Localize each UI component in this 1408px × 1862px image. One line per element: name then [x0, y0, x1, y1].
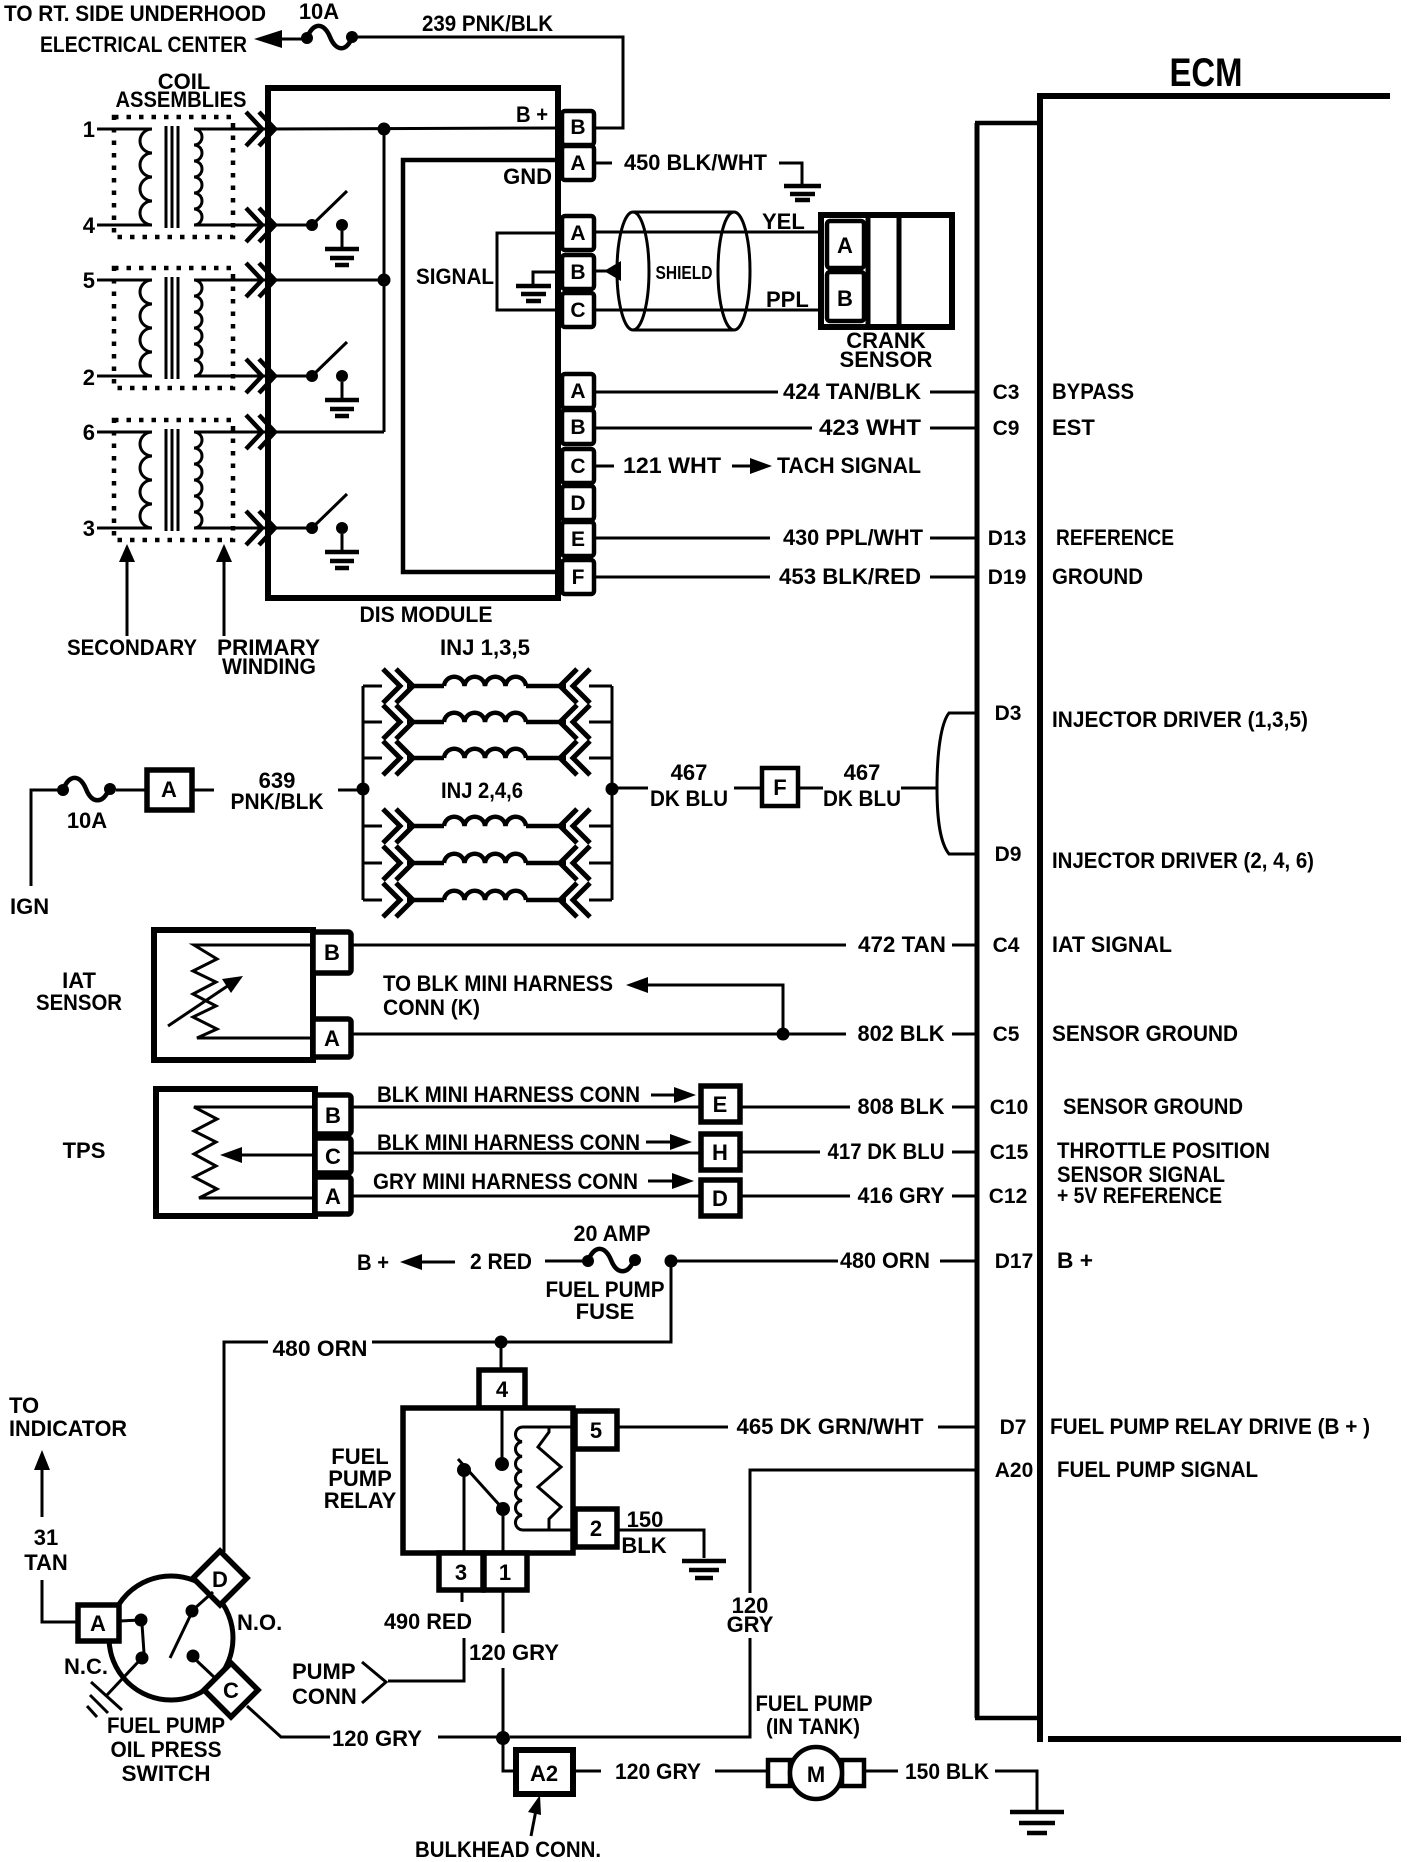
label BLK MINI HARNESS CONN (E) with arrow: [377, 1082, 696, 1107]
driver switch Q2 (coil 2) with ground: [268, 342, 359, 416]
svg-text:10A: 10A: [67, 808, 107, 833]
svg-text:SWITCH: SWITCH: [122, 1761, 211, 1786]
injector 6: [363, 883, 612, 917]
node label TO RT. SIDE UNDERHOOD ELECTRICAL CENTER: [4, 1, 266, 57]
svg-text:TO BLK MINI HARNESS: TO BLK MINI HARNESS: [383, 971, 613, 996]
svg-text:SENSOR: SENSOR: [36, 990, 122, 1015]
svg-text:4: 4: [496, 1377, 509, 1402]
svg-text:F: F: [572, 566, 585, 589]
svg-text:BYPASS: BYPASS: [1052, 379, 1134, 404]
connector PUMP CONN: [292, 1659, 386, 1709]
svg-text:CONN: CONN: [292, 1684, 357, 1709]
svg-text:450 BLK/WHT: 450 BLK/WHT: [624, 150, 768, 175]
svg-text:D: D: [712, 1186, 728, 1211]
svg-text:TACH SIGNAL: TACH SIGNAL: [777, 453, 921, 478]
svg-text:B: B: [570, 261, 585, 284]
svg-text:TO RT. SIDE UNDERHOOD: TO RT. SIDE UNDERHOOD: [4, 1, 266, 26]
svg-text:INDICATOR: INDICATOR: [9, 1416, 127, 1441]
wire 480 ORN branch: [224, 1336, 505, 1552]
wire C diamond to 120 GRY: [247, 1706, 503, 1751]
svg-text:120 GRY: 120 GRY: [332, 1726, 422, 1751]
connector A2 bulkhead: [516, 1750, 573, 1794]
svg-text:YEL: YEL: [762, 209, 805, 234]
injector 3: [363, 705, 612, 739]
junction injector bus right: [606, 783, 619, 796]
injector 5: [363, 741, 612, 775]
svg-text:C4: C4: [993, 934, 1020, 957]
svg-text:A: A: [325, 1184, 341, 1209]
svg-text:TO: TO: [9, 1393, 39, 1418]
connector E: [701, 1086, 740, 1122]
svg-text:480 ORN: 480 ORN: [840, 1248, 930, 1273]
svg-text:F: F: [773, 775, 786, 800]
svg-text:5: 5: [590, 1418, 602, 1443]
wire 417 DK BLU to C15 THROTTLE POSITION SENSOR SIGNAL: [740, 1138, 1270, 1187]
svg-text:2: 2: [590, 1516, 602, 1541]
junction relay feed: [495, 1336, 508, 1349]
junction dot bus coil2: [378, 274, 391, 287]
wire 467 DK BLU (right of F): [798, 760, 937, 811]
junction fuse output: [665, 1255, 678, 1268]
svg-text:10A: 10A: [299, 0, 339, 24]
svg-text:A: A: [324, 1026, 340, 1051]
relay coil and resistor: [515, 1427, 573, 1530]
svg-text:465 DK GRN/WHT: 465 DK GRN/WHT: [737, 1414, 925, 1439]
svg-text:B +: B +: [516, 102, 548, 127]
svg-text:802 BLK: 802 BLK: [858, 1021, 945, 1046]
svg-text:FUEL PUMP: FUEL PUMP: [107, 1713, 225, 1738]
svg-text:A: A: [837, 233, 853, 258]
arrow to electrical center: [254, 30, 305, 48]
svg-text:FUEL PUMP SIGNAL: FUEL PUMP SIGNAL: [1057, 1457, 1258, 1482]
relay terminal 2: [575, 1509, 617, 1547]
svg-text:A: A: [570, 152, 585, 175]
wire 639 PNK/BLK: [192, 768, 363, 814]
wire A20 FUEL PUMP SIGNAL: [510, 1457, 1258, 1737]
svg-text:467: 467: [844, 760, 881, 785]
svg-text:C: C: [570, 299, 585, 322]
svg-text:424 TAN/BLK: 424 TAN/BLK: [783, 379, 921, 404]
svg-text:TPS: TPS: [63, 1138, 106, 1163]
svg-text:3: 3: [83, 516, 95, 541]
wire 121 WHT tach signal: [594, 453, 921, 478]
svg-text:150 BLK: 150 BLK: [905, 1759, 989, 1784]
svg-text:C15: C15: [990, 1141, 1029, 1164]
wire 416 GRY to C12 +5V REFERENCE: [740, 1183, 1222, 1208]
relay terminal 5: [575, 1411, 617, 1449]
svg-text:IAT SIGNAL: IAT SIGNAL: [1052, 932, 1172, 957]
wire B+ feed with arrow: [357, 1249, 585, 1275]
svg-text:INJ 1,3,5: INJ 1,3,5: [440, 635, 530, 660]
chevron connector coil1 secondary bottom: [246, 208, 275, 242]
wire TPS B to E: [351, 1106, 701, 1109]
svg-text:453 BLK/RED: 453 BLK/RED: [779, 564, 921, 589]
svg-text:121 WHT: 121 WHT: [623, 453, 722, 478]
svg-text:DIS MODULE: DIS MODULE: [360, 602, 493, 627]
svg-text:GND: GND: [503, 164, 552, 189]
svg-text:3: 3: [455, 1560, 467, 1585]
svg-text:A2: A2: [530, 1761, 558, 1786]
ECM U2: [975, 51, 1401, 1742]
wire IGN feed: [10, 790, 58, 919]
terminal C (crank conn): [562, 293, 594, 327]
signal box inside DIS module: [403, 160, 558, 572]
wire 467 DK BLU (left of F): [612, 760, 762, 811]
injector 2: [363, 809, 612, 843]
label TO INDICATOR with arrow: [9, 1393, 127, 1517]
svg-text:SENSOR: SENSOR: [840, 347, 933, 372]
wire TPS A to D: [351, 1195, 701, 1198]
svg-text:20 AMP: 20 AMP: [574, 1221, 651, 1246]
svg-text:C: C: [325, 1144, 341, 1169]
svg-text:BLK: BLK: [621, 1533, 666, 1558]
connector H: [701, 1134, 740, 1170]
svg-text:D13: D13: [988, 527, 1027, 550]
relay terminal 4: [479, 1370, 525, 1408]
svg-text:B: B: [570, 416, 585, 439]
svg-text:REFERENCE: REFERENCE: [1056, 525, 1174, 550]
svg-text:D7: D7: [1000, 1416, 1027, 1439]
svg-text:A20: A20: [995, 1459, 1034, 1482]
chevron connector coil3 bottom: [246, 511, 275, 545]
svg-text:INJECTOR DRIVER (1,3,5): INJECTOR DRIVER (1,3,5): [1052, 707, 1308, 732]
junction dot bus top: [378, 123, 391, 136]
svg-text:PNK/BLK: PNK/BLK: [231, 789, 324, 814]
driver switch Q3 (coil 3) with ground: [268, 494, 359, 568]
relay switch contacts: [457, 1408, 510, 1553]
svg-text:SIGNAL: SIGNAL: [416, 264, 494, 289]
svg-text:M: M: [807, 1762, 825, 1787]
svg-text:OIL PRESS: OIL PRESS: [111, 1737, 222, 1762]
svg-text:C: C: [223, 1678, 239, 1703]
chevron connector coil3 top: [246, 415, 275, 449]
svg-text:D3: D3: [995, 702, 1022, 725]
relay terminal 1: [484, 1553, 527, 1590]
coil assembly 2 (cylinders 5/2): [83, 268, 268, 390]
svg-text:A: A: [90, 1611, 106, 1636]
wire shield drain: [594, 261, 621, 281]
terminal A (TPS): [315, 1177, 351, 1214]
wire coil bus vertical: [383, 129, 386, 432]
svg-text:B +: B +: [357, 1250, 389, 1275]
wire 480 ORN to D17 B+: [671, 1248, 1093, 1273]
svg-text:FUSE: FUSE: [576, 1299, 635, 1324]
wire 453 BLK/RED to D19 GROUND: [594, 564, 1143, 589]
wire 808 BLK to C10 SENSOR GROUND: [740, 1094, 1243, 1119]
fuse 10A (239 circuit): [299, 0, 358, 48]
svg-text:C5: C5: [993, 1023, 1020, 1046]
svg-text:ELECTRICAL CENTER: ELECTRICAL CENTER: [40, 32, 247, 57]
wire injector bus right: [611, 686, 614, 900]
wire PPL crank signal: [594, 287, 821, 312]
terminal F (DIS EST group): [562, 560, 594, 594]
terminal B (TPS): [315, 1095, 351, 1134]
oil press switch contacts: [107, 1592, 215, 1695]
driver switch Q1 (coil 1) with ground: [268, 191, 359, 265]
label COIL ASSEMBLIES: [116, 69, 247, 112]
label BLK MINI HARNESS CONN (H) with arrow: [377, 1130, 692, 1155]
IAT sensor: [36, 930, 313, 1060]
svg-text:31: 31: [34, 1525, 58, 1550]
svg-text:CONN (K): CONN (K): [383, 995, 480, 1020]
svg-text:BULKHEAD CONN.: BULKHEAD CONN.: [415, 1837, 601, 1862]
svg-text:IGN: IGN: [10, 894, 49, 919]
svg-text:INJECTOR DRIVER (2, 4, 6): INJECTOR DRIVER (2, 4, 6): [1052, 848, 1314, 873]
wire 239 PNK/BLK: [357, 11, 623, 128]
wire 31 TAN: [24, 1525, 78, 1622]
wire 465 DK GRN/WHT to D7 FUEL PUMP RELAY DRIVE: [617, 1414, 1370, 1439]
svg-text:GRY MINI HARNESS CONN: GRY MINI HARNESS CONN: [373, 1169, 638, 1194]
wire 490 RED from terminal 3: [384, 1590, 472, 1681]
svg-text:480 ORN: 480 ORN: [273, 1336, 368, 1361]
terminal A (DIS GND): [562, 146, 594, 180]
svg-text:467: 467: [671, 760, 708, 785]
svg-text:A: A: [161, 777, 177, 802]
svg-text:D: D: [570, 492, 585, 515]
terminal D (DIS EST group): [562, 486, 594, 520]
svg-text:430 PPL/WHT: 430 PPL/WHT: [783, 525, 924, 550]
svg-text:C9: C9: [993, 417, 1020, 440]
connector F (467 circuit): [762, 768, 798, 806]
wire 423 WHT to C9 EST: [594, 415, 1095, 440]
svg-text:B +: B +: [1057, 1248, 1093, 1273]
terminal A (IAT): [313, 1019, 351, 1057]
wire 450 BLK/WHT with ground: [594, 150, 821, 200]
svg-text:D9: D9: [995, 843, 1022, 866]
svg-text:+ 5V REFERENCE: + 5V REFERENCE: [1057, 1183, 1222, 1208]
svg-text:SENSOR GROUND: SENSOR GROUND: [1052, 1021, 1238, 1046]
wire YEL crank signal: [594, 209, 821, 234]
svg-text:RELAY: RELAY: [324, 1488, 397, 1513]
svg-text:H: H: [712, 1140, 728, 1165]
wire 150 BLK with ground: [617, 1507, 726, 1578]
coil assembly 1 (cylinders 1/4): [83, 117, 268, 238]
svg-text:239 PNK/BLK: 239 PNK/BLK: [422, 11, 553, 36]
svg-text:416 GRY: 416 GRY: [858, 1183, 945, 1208]
svg-text:E: E: [713, 1092, 728, 1117]
svg-text:ECM: ECM: [1170, 51, 1243, 95]
svg-text:D17: D17: [995, 1250, 1034, 1273]
svg-text:ASSEMBLIES: ASSEMBLIES: [116, 87, 247, 112]
terminal C (TPS): [315, 1138, 351, 1173]
svg-text:SENSOR GROUND: SENSOR GROUND: [1063, 1094, 1243, 1119]
wire coil3 top to bus: [268, 431, 384, 434]
svg-text:SECONDARY: SECONDARY: [67, 635, 197, 660]
svg-text:A: A: [570, 222, 585, 245]
svg-text:(IN TANK): (IN TANK): [766, 1714, 860, 1739]
svg-text:6: 6: [83, 420, 95, 445]
fuel pump relay K1: [324, 1408, 573, 1553]
connector A (639 circuit): [147, 770, 192, 810]
terminal A (oil press switch): [78, 1605, 119, 1641]
label PRIMARY WINDING with arrow: [216, 544, 320, 679]
svg-text:5: 5: [83, 268, 95, 293]
wire 472 TAN to C4 IAT SIGNAL: [351, 932, 1172, 957]
terminal A (DIS EST group): [562, 374, 594, 408]
arrow to A2 (bulkhead): [528, 1795, 541, 1836]
svg-text:E: E: [571, 528, 585, 551]
chevron connector coil2 bottom: [246, 359, 275, 393]
connector D: [701, 1180, 740, 1216]
terminal A (crank conn): [562, 216, 594, 250]
label GRY MINI HARNESS CONN (D) with arrow: [373, 1169, 694, 1194]
label SECONDARY with arrow: [67, 544, 197, 660]
svg-text:A: A: [570, 380, 585, 403]
junction 120 GRY at A2: [496, 1731, 510, 1745]
junction injector bus left: [357, 783, 370, 796]
svg-text:C12: C12: [989, 1185, 1028, 1208]
wire 120 GRY from terminal 1: [469, 1590, 559, 1737]
svg-text:INJ 2,4,6: INJ 2,4,6: [441, 778, 523, 803]
svg-text:GROUND: GROUND: [1052, 564, 1143, 589]
terminal E (DIS EST group): [562, 522, 594, 556]
svg-text:417 DK BLU: 417 DK BLU: [828, 1139, 945, 1164]
injector 1: [363, 669, 612, 703]
wire internal A-C bracket: [497, 233, 562, 310]
svg-text:N.C.: N.C.: [64, 1654, 108, 1679]
svg-text:GRY: GRY: [727, 1612, 774, 1637]
svg-text:B: B: [325, 1103, 341, 1128]
fuse 10A (639 circuit): [57, 778, 147, 833]
label TO BLK MINI HARNESS CONN (K) with arrow: [383, 971, 783, 1028]
fuel pump oil press switch S1: [107, 1576, 233, 1786]
fuel pump motor M1: [756, 1691, 873, 1799]
terminal C (DIS EST group): [562, 449, 594, 483]
svg-text:C3: C3: [993, 381, 1020, 404]
wire 802 BLK to C5 SENSOR GROUND: [351, 1021, 1238, 1046]
chevron connector coil1 secondary top: [246, 112, 275, 146]
crank sensor connector: [821, 215, 952, 372]
wire to relay terminal 4: [500, 1342, 503, 1370]
wire 430 PPL/WHT to D13 REFERENCE: [594, 525, 1174, 550]
svg-text:BLK MINI HARNESS CONN: BLK MINI HARNESS CONN: [377, 1082, 640, 1107]
coil assembly 3 (cylinders 6/3): [83, 420, 268, 541]
svg-text:FUEL PUMP: FUEL PUMP: [756, 1691, 873, 1716]
svg-text:DK BLU: DK BLU: [823, 786, 901, 811]
svg-text:808 BLK: 808 BLK: [858, 1094, 945, 1119]
svg-text:4: 4: [83, 213, 96, 238]
svg-text:B: B: [570, 116, 585, 139]
shield (cable shield cylinder): [617, 212, 750, 330]
wire fuse down to 480 ORN bus: [505, 1261, 671, 1342]
svg-text:DK BLU: DK BLU: [650, 786, 728, 811]
TPS sensor: [63, 1089, 315, 1216]
wire coil2 top to bus: [268, 279, 384, 282]
chassis hash marks (N.C.): [87, 1682, 122, 1717]
svg-text:N.O.: N.O.: [237, 1610, 282, 1635]
svg-text:120 GRY: 120 GRY: [615, 1759, 701, 1784]
svg-text:B: B: [837, 286, 853, 311]
svg-text:C10: C10: [990, 1096, 1029, 1119]
svg-text:THROTTLE POSITION: THROTTLE POSITION: [1057, 1138, 1270, 1163]
svg-text:PPL: PPL: [766, 287, 809, 312]
wire TPS C to H: [351, 1152, 701, 1155]
injector 4: [363, 846, 612, 880]
svg-text:WINDING: WINDING: [222, 654, 316, 679]
terminal C (oil press switch): [204, 1663, 258, 1717]
DIS module U1: [268, 88, 558, 627]
terminal B (IAT): [313, 932, 351, 973]
chevron connector coil2 top: [246, 263, 275, 297]
terminal B (DIS top): [562, 111, 594, 145]
svg-text:D19: D19: [988, 566, 1027, 589]
wire 150 BLK to ground (fuel pump): [864, 1759, 1064, 1833]
svg-text:490 RED: 490 RED: [384, 1609, 472, 1634]
svg-text:472 TAN: 472 TAN: [858, 932, 946, 957]
terminal D (oil press switch): [193, 1551, 247, 1605]
terminal B (crank conn): [562, 255, 594, 289]
svg-text:150: 150: [627, 1507, 664, 1532]
svg-text:C: C: [570, 455, 585, 478]
fuse FUEL PUMP FUSE 20 AMP: [546, 1221, 665, 1324]
wire junction to A2: [503, 1738, 516, 1771]
svg-text:TAN: TAN: [24, 1550, 68, 1575]
relay terminal 3: [439, 1553, 483, 1590]
wire injector bus left: [362, 686, 365, 900]
svg-text:D: D: [212, 1567, 228, 1592]
svg-text:EST: EST: [1052, 415, 1095, 440]
svg-text:1: 1: [83, 117, 95, 142]
svg-text:423 WHT: 423 WHT: [819, 415, 922, 440]
bracket to D3/D9 injector drivers: [937, 702, 1314, 873]
svg-text:120 GRY: 120 GRY: [469, 1640, 559, 1665]
ground internal at B: [516, 272, 562, 301]
svg-text:2 RED: 2 RED: [470, 1249, 532, 1274]
svg-text:FUEL PUMP RELAY DRIVE (B + ): FUEL PUMP RELAY DRIVE (B + ): [1050, 1414, 1370, 1439]
svg-text:SHIELD: SHIELD: [656, 263, 713, 283]
svg-text:BLK MINI HARNESS CONN: BLK MINI HARNESS CONN: [377, 1130, 640, 1155]
wire 120 GRY to fuel pump: [573, 1759, 768, 1784]
svg-text:PUMP: PUMP: [292, 1659, 356, 1684]
svg-text:B: B: [324, 940, 340, 965]
terminal B (DIS EST group): [562, 410, 594, 444]
svg-text:1: 1: [499, 1560, 511, 1585]
wire B+ bus inside DIS module: [268, 102, 562, 129]
svg-text:2: 2: [83, 365, 95, 390]
wire 424 TAN/BLK to C3 BYPASS: [594, 379, 1134, 404]
